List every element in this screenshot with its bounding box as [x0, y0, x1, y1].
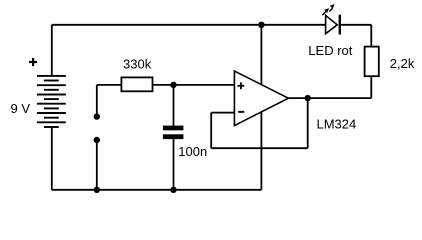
- wire bottom rail: [52, 189, 262, 191]
- wire feedback bottom horizontal: [211, 147, 308, 149]
- wire battery top stub: [51, 25, 53, 76]
- LED light arrow upper: [329, 4, 334, 12]
- wire feedback right vertical to output: [307, 98, 309, 148]
- wire output row: [288, 97, 371, 99]
- battery B1 9V plates: [37, 76, 66, 127]
- wire 2.2k bottom lead to output row: [370, 76, 372, 98]
- switch lower terminal dot: [94, 137, 100, 143]
- LED cathode bar: [339, 15, 341, 35]
- wire op-amp power vertical: [260, 25, 262, 190]
- wire LED cathode to resistor corner: [340, 24, 372, 26]
- svg-text:LED rot: LED rot: [308, 43, 352, 58]
- node junction at output feedback tap: [305, 95, 311, 101]
- op-amp plus input marker: [238, 82, 245, 89]
- wire top rail from battery + to LED anode: [52, 24, 326, 26]
- node junction at capacitor tap: [170, 82, 176, 88]
- switch upper terminal dot: [94, 113, 100, 119]
- op-amp minus input marker: [238, 111, 244, 113]
- op-amp U1 triangle: [234, 71, 288, 126]
- wire switch lower stub: [96, 140, 98, 190]
- svg-text:330k: 330k: [123, 56, 152, 71]
- svg-text:LM324: LM324: [317, 117, 357, 132]
- wire minus input horizontal: [211, 112, 234, 114]
- node junction bottom rail at switch: [94, 187, 100, 193]
- wire plus input row (resistor to op-amp): [153, 84, 235, 86]
- wire 2.2k top lead: [370, 25, 372, 47]
- battery plus sign label: [29, 58, 37, 66]
- svg-text:2,2k: 2,2k: [390, 56, 415, 71]
- wire capacitor top lead: [173, 85, 175, 126]
- resistor R1 330k body: [121, 77, 152, 91]
- wire plus input row (left of resistor): [97, 84, 122, 86]
- capacitor C1 100n plates: [163, 126, 184, 140]
- wire battery bottom stub: [51, 127, 53, 190]
- svg-text:9 V: 9 V: [11, 101, 31, 116]
- wire switch upper stub: [96, 85, 98, 114]
- svg-text:100n: 100n: [178, 144, 207, 159]
- LED light arrow lower: [322, 8, 329, 15]
- resistor R2 2.2k body: [365, 47, 379, 77]
- wire capacitor bottom lead: [173, 139, 175, 190]
- node junction bottom rail at capacitor: [170, 187, 176, 193]
- node junction top rail power tap: [258, 22, 264, 28]
- LED D1 triangle: [326, 15, 338, 33]
- wire feedback left vertical: [210, 113, 212, 149]
